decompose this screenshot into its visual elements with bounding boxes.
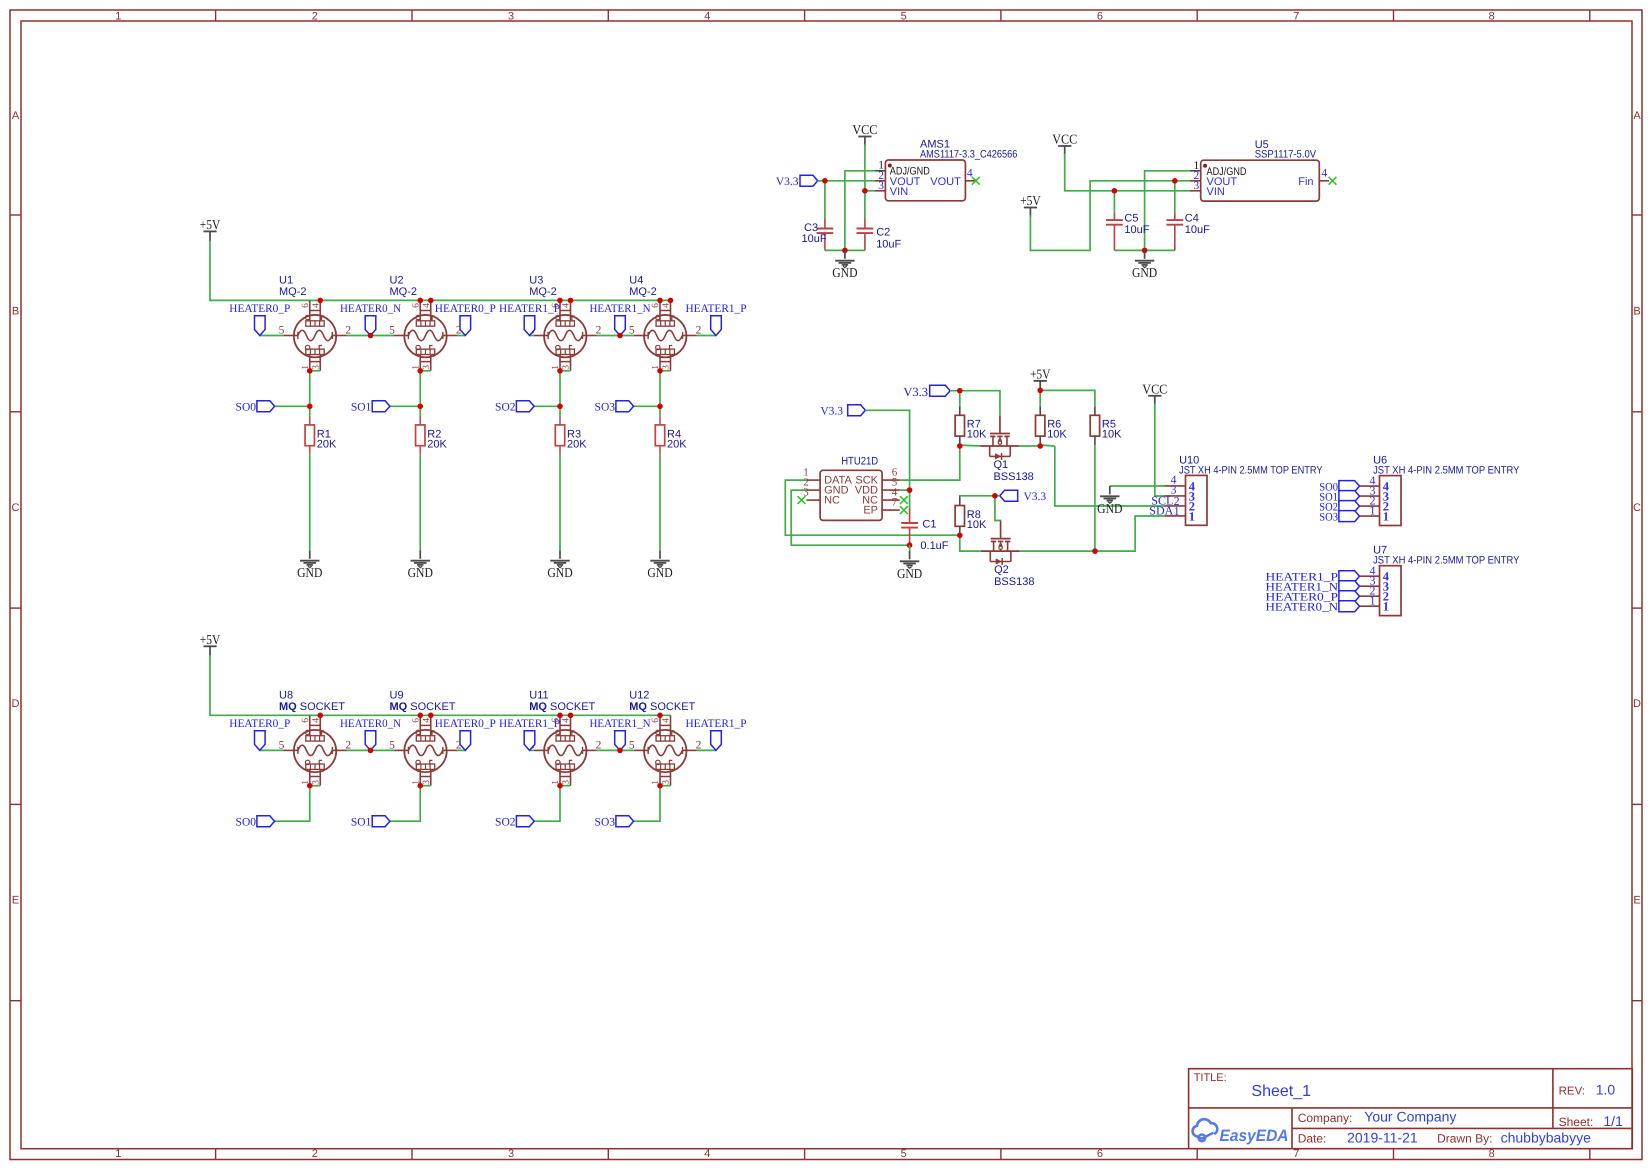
svg-text:HEATER0_P: HEATER0_P: [435, 303, 496, 315]
svg-text:B: B: [12, 305, 19, 317]
wire V3.3 to VDD rail: [865, 410, 909, 508]
svg-text:5: 5: [901, 1148, 907, 1160]
wire R7 bottom to Q1 source: [960, 444, 981, 447]
wire SO2 node: sensor U3 bottom to R3: [559, 371, 561, 416]
wire VCC to VIN pin3: [865, 190, 875, 192]
wire ground rail C5-C4: [1114, 249, 1174, 251]
svg-text:3: 3: [562, 780, 572, 785]
svg-text:1: 1: [1383, 510, 1389, 524]
wire HEATER1_P to U11 pin5: [530, 749, 534, 751]
wire U2 pin2 to HEATER0_P: [457, 335, 465, 337]
ground symbol (C1): [897, 551, 923, 581]
wire SO1 flag to socket U9 bottom: [390, 786, 420, 822]
sensor U8 MQ SOCKET: [279, 690, 352, 786]
wire ADJ/GND pin1 to ground rail: [845, 171, 875, 251]
svg-text:VCC: VCC: [852, 122, 877, 137]
capacitor C5 10uF: [1106, 191, 1150, 251]
resistor R8 10K: [955, 497, 987, 536]
no-connect X (AMS pin4): [972, 177, 980, 185]
wire ADJ/GND pin1 to ground rail: [1145, 171, 1190, 251]
svg-text:Sheet:: Sheet:: [1559, 1115, 1594, 1129]
svg-text:HEATER0_P: HEATER0_P: [229, 718, 290, 730]
svg-text:Company:: Company:: [1298, 1111, 1353, 1125]
wire Q2 drain to SDA run: [1020, 516, 1165, 551]
svg-text:6: 6: [651, 303, 661, 308]
connector U7 JST XH 4-PIN 2.5MM TOP ENTRY: [1358, 545, 1519, 616]
svg-text:3: 3: [662, 780, 672, 785]
svg-text:C4: C4: [1185, 213, 1199, 225]
svg-text:VCC: VCC: [1142, 381, 1167, 396]
ground symbol: [297, 550, 323, 580]
wire U3 pin2 to U4 pin5 (HEATER1_N tap): [597, 335, 634, 337]
svg-text:D: D: [12, 698, 20, 710]
wire U11 pin2 to U12 pin5 (HEATER1_N tap): [597, 749, 634, 751]
svg-text:1: 1: [1370, 594, 1376, 608]
wire VCC to VIN pin3: [1065, 154, 1190, 191]
wire SCL run to U10 pin2: [1055, 446, 1165, 506]
wire SO3 node: sensor U4 bottom to R4: [659, 371, 661, 416]
svg-text:HEATER1_N: HEATER1_N: [590, 303, 652, 315]
wire HEATER0_P to U8 pin5: [260, 749, 284, 751]
svg-text:MQ SOCKET: MQ SOCKET: [279, 701, 345, 713]
svg-text:GND: GND: [832, 265, 858, 280]
svg-text:B: B: [1633, 305, 1640, 317]
junction dots on bottom +5V bus: [317, 713, 323, 719]
svg-text:1: 1: [1370, 503, 1376, 517]
svg-text:+5V: +5V: [1030, 366, 1051, 381]
port flag SO0: [236, 816, 275, 829]
wire VCC to U10 pin3: [1155, 403, 1165, 496]
svg-text:10uF: 10uF: [1185, 224, 1210, 236]
wire V3.3 branch to Q2 gate: [995, 496, 1001, 521]
port flag HEATER1_N: [590, 718, 652, 750]
port flag SO3: [595, 816, 634, 829]
wire VCC down to C2: [864, 144, 866, 219]
svg-text:4: 4: [311, 303, 321, 308]
svg-text:4: 4: [562, 303, 572, 308]
svg-text:U12: U12: [629, 690, 649, 702]
resistor R2 20K: [416, 416, 448, 455]
port flag HEATER1_P: [499, 303, 560, 335]
wire VDD pin5 tap: [900, 489, 910, 491]
port flag HEATER0_P: [435, 718, 496, 750]
svg-text:4: 4: [662, 718, 672, 723]
transistor Q1 BSS138: [980, 416, 1034, 483]
power flag +5V (U5 output): [1020, 193, 1041, 217]
svg-text:+5V: +5V: [1020, 193, 1041, 208]
sensor U1 MQ-2: [279, 275, 352, 371]
resistor R5 10K: [1090, 406, 1122, 445]
svg-text:VIN: VIN: [890, 186, 908, 198]
svg-text:7: 7: [1293, 10, 1299, 22]
wire R5 bottom to SDA 5V rail: [1094, 445, 1096, 551]
svg-text:SO3: SO3: [595, 402, 616, 414]
svg-text:6: 6: [301, 303, 311, 308]
svg-text:10K: 10K: [967, 429, 987, 441]
port flag SO3: [595, 401, 634, 414]
svg-text:20K: 20K: [427, 438, 447, 450]
svg-text:C: C: [1633, 502, 1641, 514]
svg-text:U2: U2: [390, 275, 404, 287]
svg-text:SSP1117-5.0V: SSP1117-5.0V: [1255, 149, 1317, 161]
svg-text:U1: U1: [279, 275, 293, 287]
junction dots (U5 circuit): [1112, 188, 1118, 194]
power flag VCC (U10): [1142, 381, 1167, 405]
power flag +5V (top sensor rail): [200, 217, 221, 241]
svg-text:HEATER1_P: HEATER1_P: [499, 718, 560, 730]
svg-text:C2: C2: [876, 227, 890, 239]
wire R3 to GND: [559, 455, 561, 551]
no-connect X (U5 pin4): [1329, 177, 1337, 185]
svg-text:+5V: +5V: [200, 632, 221, 647]
connector U10 JST XH 4-PIN 2.5MM TOP ENTRY: [1164, 454, 1322, 525]
svg-text:E: E: [12, 895, 19, 907]
no-connect X marks (HTU21D): [798, 496, 806, 504]
svg-text:3: 3: [311, 780, 321, 785]
svg-text:6: 6: [411, 718, 421, 723]
svg-text:SO3: SO3: [1319, 512, 1338, 524]
title block: [1189, 1069, 1633, 1149]
svg-text:GND: GND: [647, 565, 673, 580]
svg-text:V3.3: V3.3: [1024, 491, 1047, 503]
svg-text:4: 4: [662, 303, 672, 308]
svg-text:6: 6: [1097, 1148, 1103, 1160]
port flag HEATER1_P: [686, 718, 747, 750]
port flag SO2: [495, 816, 534, 829]
svg-text:20K: 20K: [667, 438, 687, 450]
svg-text:1: 1: [1383, 600, 1389, 614]
port flag HEATER1_P (U7 pin4): [1266, 571, 1360, 584]
svg-text:Drawn By:: Drawn By:: [1437, 1131, 1492, 1145]
sensor U2 MQ-2: [389, 275, 462, 371]
wire HEATER0_P to U1 pin5: [260, 335, 284, 337]
svg-text:AMS1117-3.3_C426566: AMS1117-3.3_C426566: [920, 149, 1017, 161]
svg-text:U3: U3: [529, 275, 543, 287]
wire SO2 flag to junction: [534, 405, 560, 407]
svg-text:chubbybabyye: chubbybabyye: [1501, 1129, 1592, 1145]
sensor U4 MQ-2: [629, 275, 702, 371]
port flag SO0: [236, 401, 275, 414]
resistor R7 10K: [955, 406, 987, 445]
port flag HEATER0_N: [340, 718, 402, 750]
port flag V3.3 (AMS output): [776, 175, 818, 188]
port flag SO1: [351, 401, 390, 414]
svg-text:A: A: [12, 110, 20, 122]
svg-text:Fin: Fin: [1298, 176, 1313, 188]
svg-text:8: 8: [1489, 1148, 1495, 1160]
port flag HEATER0_N (U7 pin1): [1266, 601, 1360, 614]
svg-text:V3.3: V3.3: [903, 385, 928, 399]
svg-text:2019-11-21: 2019-11-21: [1347, 1129, 1418, 1145]
svg-text:SO1: SO1: [351, 402, 372, 414]
svg-text:8: 8: [1489, 10, 1495, 22]
wire +5V to socket bus: [210, 655, 671, 715]
svg-text:REV:: REV:: [1559, 1086, 1585, 1098]
regulator U5 SSP1117-5.0V: [1190, 139, 1329, 201]
power flag VCC (AMS1117 input): [852, 122, 877, 146]
svg-text:4: 4: [422, 718, 432, 723]
wire +5V to sensor bus: [210, 241, 671, 300]
svg-text:MQ SOCKET: MQ SOCKET: [390, 701, 456, 713]
svg-text:4: 4: [704, 1148, 710, 1160]
wire SO3 flag to socket U12 bottom: [634, 786, 660, 822]
svg-text:7: 7: [1293, 1148, 1299, 1160]
svg-text:C: C: [12, 502, 20, 514]
wire SO3 flag to junction: [634, 405, 660, 407]
svg-text:JST XH 4-PIN 2.5MM TOP ENTRY: JST XH 4-PIN 2.5MM TOP ENTRY: [1373, 555, 1519, 567]
svg-text:U4: U4: [629, 275, 643, 287]
capacitor C1 0.1uF: [901, 509, 949, 553]
port flag HEATER0_P (U7 pin2): [1266, 591, 1360, 604]
IC HTU21D: [803, 455, 900, 520]
svg-text:GND: GND: [297, 565, 323, 580]
ground symbol (U10): [1097, 486, 1123, 516]
port flag HEATER1_P: [686, 303, 747, 335]
svg-text:10K: 10K: [1047, 429, 1067, 441]
svg-text:SO0: SO0: [236, 816, 257, 828]
port flag SO3 (U6 pin1): [1319, 511, 1359, 524]
wire R8 bottom to Q2 source: [960, 535, 981, 551]
svg-text:Sheet_1: Sheet_1: [1251, 1083, 1311, 1100]
svg-text:3: 3: [878, 180, 884, 192]
svg-text:SO0: SO0: [236, 402, 257, 414]
svg-text:6: 6: [411, 303, 421, 308]
wire DATA pin1 to bottom run: [785, 480, 960, 535]
svg-text:3: 3: [422, 365, 432, 370]
ground symbol (AMS circuit): [832, 250, 858, 280]
svg-text:Q2: Q2: [994, 564, 1009, 576]
wire R4 to GND: [659, 455, 661, 551]
svg-text:MQ SOCKET: MQ SOCKET: [529, 701, 595, 713]
svg-text:GND: GND: [547, 565, 573, 580]
svg-text:2: 2: [312, 10, 318, 22]
wire SO0 flag to socket U8 bottom: [275, 786, 310, 822]
power flag +5V (pull-up rail): [1030, 366, 1051, 390]
svg-text:MQ SOCKET: MQ SOCKET: [629, 701, 695, 713]
svg-text:HEATER0_P: HEATER0_P: [229, 303, 290, 315]
port flag V3.3 (R8/Q2 gate, left-pointing): [1000, 490, 1047, 503]
port flag HEATER0_P: [229, 303, 290, 335]
svg-text:MQ-2: MQ-2: [279, 286, 307, 298]
wire +5V to VOUT pin2: [1030, 181, 1190, 251]
svg-text:HEATER0_P: HEATER0_P: [435, 718, 496, 730]
svg-text:D: D: [1633, 698, 1641, 710]
svg-text:HEATER0_N: HEATER0_N: [340, 718, 402, 730]
svg-text:HEATER1_P: HEATER1_P: [686, 718, 747, 730]
svg-text:MQ-2: MQ-2: [629, 286, 657, 298]
svg-text:1.0: 1.0: [1596, 1082, 1616, 1098]
port flag HEATER1_N (U7 pin3): [1266, 581, 1360, 594]
resistor R1 20K: [305, 416, 337, 455]
port flag HEATER0_N: [340, 303, 402, 335]
svg-text:BSS138: BSS138: [994, 576, 1034, 588]
sensor U12 MQ SOCKET: [629, 690, 702, 786]
ground symbol: [647, 550, 673, 580]
svg-text:JST XH 4-PIN 2.5MM TOP ENTRY: JST XH 4-PIN 2.5MM TOP ENTRY: [1373, 465, 1519, 477]
wire U1 pin2 to U2 pin5 (HEATER0_N tap): [347, 335, 395, 337]
wire R1 to GND: [309, 455, 311, 551]
svg-text:Date:: Date:: [1298, 1131, 1327, 1145]
svg-text:E: E: [1633, 895, 1640, 907]
svg-text:4: 4: [311, 718, 321, 723]
svg-text:4: 4: [704, 10, 710, 22]
svg-text:4: 4: [1321, 167, 1327, 179]
svg-text:10K: 10K: [967, 519, 987, 531]
svg-text:V3.3: V3.3: [820, 406, 843, 418]
ground symbol (U5 circuit): [1132, 250, 1158, 280]
svg-text:SO3: SO3: [595, 816, 616, 828]
svg-text:7: 7: [892, 496, 898, 508]
svg-text:4: 4: [562, 718, 572, 723]
svg-text:HEATER0_N: HEATER0_N: [1266, 602, 1339, 614]
wire HEATER1_P to U3 pin5: [530, 335, 534, 337]
svg-text:SO2: SO2: [495, 816, 516, 828]
svg-text:10uF: 10uF: [876, 239, 901, 251]
wire V3.3 to VOUT pin2: [818, 180, 875, 182]
port flag V3.3 (HTU21D VDD): [820, 405, 865, 418]
svg-text:HTU21D: HTU21D: [841, 455, 878, 467]
svg-text:1: 1: [1189, 509, 1195, 523]
svg-text:U9: U9: [390, 690, 404, 702]
svg-text:6: 6: [301, 718, 311, 723]
wire U9 pin2 to HEATER0_P: [457, 749, 465, 751]
svg-text:TITLE:: TITLE:: [1194, 1072, 1227, 1084]
svg-text:VOUT: VOUT: [930, 176, 961, 188]
wire R2 to GND: [419, 455, 421, 551]
svg-text:Your Company: Your Company: [1364, 1109, 1456, 1125]
wire stub to ground: [909, 545, 911, 551]
port flag HEATER1_N: [590, 303, 652, 335]
svg-text:Q1: Q1: [993, 459, 1008, 471]
svg-text:3: 3: [662, 365, 672, 370]
wire SCK pin6 to R7 bottom: [900, 446, 960, 480]
wire +5V to R6/R5: [1039, 388, 1041, 406]
svg-text:V3.3: V3.3: [776, 176, 799, 188]
ground symbol: [408, 550, 434, 580]
svg-text:3: 3: [311, 365, 321, 370]
svg-text:HEATER1_P: HEATER1_P: [686, 303, 747, 315]
regulator AMS1 AMS1117-3.3_C426566: [875, 139, 1018, 201]
svg-text:GND: GND: [897, 566, 923, 581]
svg-text:MQ-2: MQ-2: [390, 286, 418, 298]
connector U6 JST XH 4-PIN 2.5MM TOP ENTRY: [1358, 455, 1519, 526]
svg-text:10K: 10K: [1102, 429, 1122, 441]
wire SO2 flag to socket U11 bottom: [534, 786, 560, 822]
sensor U3 MQ-2: [529, 275, 602, 371]
port flag V3.3 (R7/Q1 gate): [903, 385, 950, 399]
svg-text:6: 6: [1097, 10, 1103, 22]
svg-text:3: 3: [422, 780, 432, 785]
svg-text:6: 6: [651, 718, 661, 723]
svg-text:10uF: 10uF: [802, 233, 827, 245]
svg-text:EasyEDA: EasyEDA: [1220, 1127, 1289, 1145]
svg-text:1/1: 1/1: [1603, 1113, 1623, 1129]
svg-text:VCC: VCC: [1052, 132, 1077, 147]
resistor R4 20K: [655, 416, 687, 455]
svg-text:U11: U11: [529, 690, 548, 702]
wire Q1 drain to R6 bottom and SCL: [1019, 445, 1040, 447]
wire V3.3 to R7 and Q1 gate: [950, 391, 1000, 416]
wire SO1 flag to junction: [390, 405, 420, 407]
wire V3.3 to R8 top: [960, 495, 1000, 498]
port flag SO0 (U6 pin4): [1319, 481, 1359, 494]
port flag SO1 (U6 pin3): [1319, 491, 1359, 504]
wire U10 pin4 to ground: [1110, 485, 1165, 487]
wire U12 pin2 to HEATER1_P: [697, 749, 716, 751]
wire SO1 node: sensor U2 bottom to R2: [419, 371, 421, 416]
wire SO0 flag to junction: [275, 405, 310, 407]
transistor Q2 BSS138: [981, 521, 1035, 588]
svg-text:3: 3: [508, 1148, 514, 1160]
wire U8 pin2 to U9 pin5 (HEATER0_N tap): [347, 749, 395, 751]
power flag VCC (U5 input): [1052, 132, 1077, 156]
svg-text:SO2: SO2: [495, 402, 516, 414]
port flag SO1: [351, 816, 390, 829]
svg-text:GND: GND: [1097, 501, 1123, 516]
svg-text:HEATER1_P: HEATER1_P: [499, 303, 560, 315]
svg-text:NC: NC: [824, 495, 840, 507]
capacitor C4 10uF: [1166, 181, 1210, 251]
port flag HEATER0_P: [435, 303, 496, 335]
port flag SO2: [495, 401, 534, 414]
junction dots on +5V bus: [317, 298, 323, 304]
svg-text:MQ-2: MQ-2: [529, 286, 557, 298]
wire GND pin2 to C1 bottom: [791, 490, 909, 545]
svg-text:VIN: VIN: [1207, 186, 1225, 198]
EasyEDA logo: [1193, 1119, 1289, 1145]
sensor U9 MQ SOCKET: [389, 690, 462, 786]
wire U4 pin2 to HEATER1_P: [697, 335, 716, 337]
svg-text:HEATER0_N: HEATER0_N: [340, 303, 402, 315]
sensor U11 MQ SOCKET: [529, 690, 602, 786]
ground symbol: [547, 550, 573, 580]
svg-text:20K: 20K: [567, 438, 587, 450]
svg-text:GND: GND: [408, 565, 434, 580]
capacitor C3 10uF: [802, 181, 834, 251]
svg-text:SO1: SO1: [351, 816, 372, 828]
svg-text:A: A: [1633, 110, 1641, 122]
svg-text:3: 3: [508, 10, 514, 22]
svg-text:C5: C5: [1124, 213, 1138, 225]
wire ground rail C3-C2: [825, 249, 865, 251]
resistor R3 20K: [555, 416, 587, 455]
svg-text:3: 3: [1194, 180, 1200, 192]
svg-text:20K: 20K: [317, 438, 337, 450]
svg-text:HEATER1_N: HEATER1_N: [590, 718, 652, 730]
power flag +5V (bottom sensor rail): [200, 632, 221, 656]
svg-text:1: 1: [115, 10, 121, 22]
port flag HEATER1_P: [499, 718, 560, 750]
port flag SO2 (U6 pin2): [1319, 501, 1359, 514]
svg-text:EP: EP: [863, 505, 878, 517]
svg-text:4: 4: [422, 303, 432, 308]
capacitor C2 10uF: [857, 219, 902, 251]
resistor R6 10K: [1036, 406, 1068, 445]
svg-text:C1: C1: [922, 519, 936, 531]
svg-text:BSS138: BSS138: [993, 471, 1033, 483]
svg-text:0.1uF: 0.1uF: [920, 540, 948, 552]
wire SO0 node: sensor U1 bottom to R1: [309, 371, 311, 416]
port flag HEATER0_P: [229, 718, 290, 750]
svg-text:3: 3: [562, 365, 572, 370]
svg-text:+5V: +5V: [200, 217, 221, 232]
junction dots (AMS circuit): [822, 178, 828, 184]
svg-text:1: 1: [1174, 504, 1180, 518]
svg-text:GND: GND: [1132, 265, 1158, 280]
svg-text:2: 2: [312, 1148, 318, 1160]
svg-text:5: 5: [901, 10, 907, 22]
svg-text:U8: U8: [279, 690, 293, 702]
